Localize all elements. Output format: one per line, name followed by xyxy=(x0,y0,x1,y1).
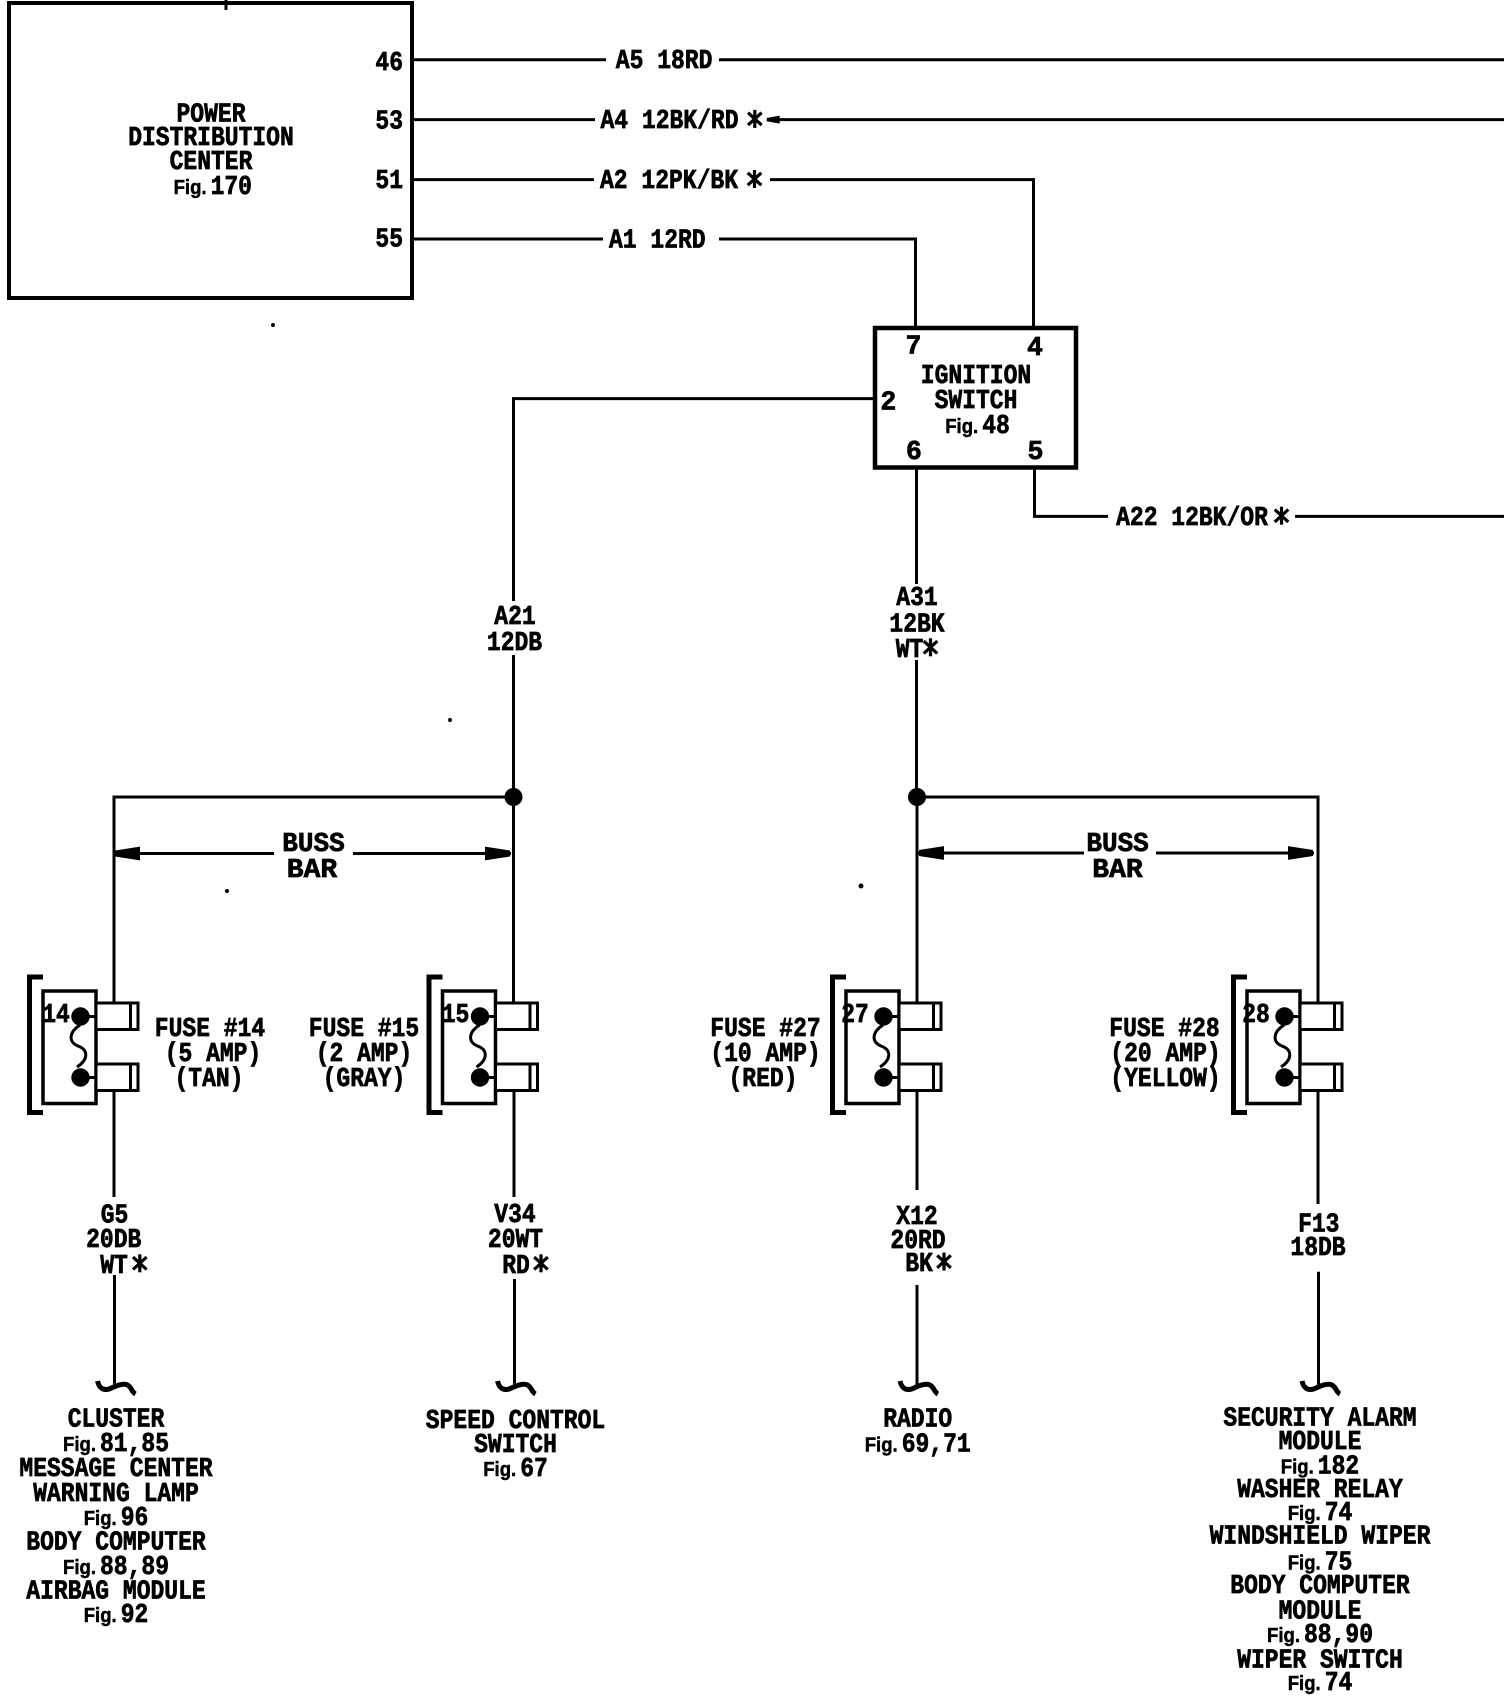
svg-text:RD: RD xyxy=(502,1251,530,1281)
break symbol cluster feed xyxy=(98,1381,136,1394)
svg-text:27: 27 xyxy=(841,1000,869,1030)
svg-text:46: 46 xyxy=(375,48,403,78)
wire A22 12BK/OR xyxy=(1033,467,1504,533)
svg-text:WINDSHIELD WIPER: WINDSHIELD WIPER xyxy=(1210,1522,1431,1552)
node cluster destination xyxy=(19,1404,212,1630)
wire segment PDC top tick xyxy=(225,0,228,10)
svg-text:67: 67 xyxy=(520,1454,548,1484)
svg-text:28: 28 xyxy=(1242,1000,1270,1030)
speck artifacts xyxy=(225,323,864,893)
svg-text:18DB: 18DB xyxy=(1290,1233,1345,1263)
svg-text:A22 12BK/OR: A22 12BK/OR xyxy=(1116,503,1268,533)
svg-text:BAR: BAR xyxy=(1092,855,1142,885)
fuse 15 xyxy=(429,977,538,1113)
svg-text:Fig.: Fig. xyxy=(483,1458,516,1481)
svg-text:A1 12RD: A1 12RD xyxy=(609,226,706,256)
pin 51 xyxy=(375,166,403,196)
svg-text:170: 170 xyxy=(211,172,252,202)
svg-text:A4 12BK/RD: A4 12BK/RD xyxy=(601,106,739,136)
svg-text:48: 48 xyxy=(982,411,1010,441)
svg-text:Fig.: Fig. xyxy=(84,1507,117,1530)
svg-text:BK: BK xyxy=(905,1249,933,1279)
wire A4 12BK/RD xyxy=(412,106,1504,136)
svg-text:14: 14 xyxy=(42,1000,70,1030)
wire A2 12PK/BK xyxy=(412,166,1034,330)
wire G5 20DB/WT xyxy=(86,1091,147,1387)
node junction A31/buss xyxy=(908,788,926,1003)
wire F13 18DB xyxy=(1290,1091,1345,1387)
svg-text:(RED): (RED) xyxy=(729,1064,798,1094)
svg-text:Fig.: Fig. xyxy=(63,1433,96,1456)
break symbol radio feed xyxy=(900,1381,938,1394)
svg-text:A2 12PK/BK: A2 12PK/BK xyxy=(600,166,738,196)
svg-text:2: 2 xyxy=(880,388,896,418)
fuse 27 xyxy=(833,977,942,1113)
fuse 28 label xyxy=(1109,1014,1220,1094)
left buss bar arrows xyxy=(114,829,511,885)
svg-text:Fig.: Fig. xyxy=(1288,1672,1321,1695)
fuse 27 label xyxy=(710,1014,820,1094)
break symbol speed control feed xyxy=(498,1381,536,1394)
right buss bar wire xyxy=(917,796,1318,1004)
node speed control switch destination xyxy=(426,1406,605,1484)
svg-text:BAR: BAR xyxy=(287,855,337,885)
svg-text:(GRAY): (GRAY) xyxy=(323,1064,406,1094)
svg-text:A31: A31 xyxy=(896,583,937,613)
wire V34 20WT/RD xyxy=(488,1091,548,1387)
pin 4 xyxy=(1027,333,1043,363)
svg-text:55: 55 xyxy=(375,225,403,255)
svg-text:WARNING LAMP: WARNING LAMP xyxy=(33,1479,199,1509)
svg-text:74: 74 xyxy=(1325,1668,1353,1698)
svg-text:Fig.: Fig. xyxy=(84,1604,117,1627)
svg-text:5: 5 xyxy=(1028,437,1044,467)
svg-text:6: 6 xyxy=(906,437,922,467)
wire X12 20RD/BK xyxy=(890,1091,950,1387)
fuse 14 xyxy=(30,977,139,1113)
power distribution center box xyxy=(9,3,412,298)
svg-text:51: 51 xyxy=(375,166,403,196)
node radio destination xyxy=(865,1404,971,1459)
pin 7 xyxy=(906,332,922,362)
svg-text:Fig.: Fig. xyxy=(1267,1624,1300,1647)
svg-text:(YELLOW): (YELLOW) xyxy=(1110,1064,1220,1094)
svg-text:Fig.: Fig. xyxy=(945,415,978,438)
svg-text:53: 53 xyxy=(375,106,403,136)
fuse 15 label xyxy=(309,1014,419,1094)
svg-text:A5 18RD: A5 18RD xyxy=(616,46,713,76)
pin 6 xyxy=(906,437,922,467)
svg-text:AIRBAG MODULE: AIRBAG MODULE xyxy=(26,1577,205,1607)
ignition switch box xyxy=(875,328,1076,468)
fuse 14 label xyxy=(155,1014,265,1094)
svg-text:(TAN): (TAN) xyxy=(175,1064,244,1094)
svg-text:7: 7 xyxy=(906,332,922,362)
svg-text:Fig.: Fig. xyxy=(174,176,207,199)
node security alarm destination xyxy=(1210,1404,1431,1699)
svg-text:Fig.: Fig. xyxy=(865,1433,898,1456)
pin 53 xyxy=(375,106,403,136)
svg-text:4: 4 xyxy=(1027,333,1043,363)
right buss bar arrows xyxy=(918,829,1314,885)
wire A21 12DB xyxy=(487,397,875,797)
svg-text:92: 92 xyxy=(121,1600,149,1630)
pin 5 xyxy=(1028,437,1044,467)
svg-text:WASHER RELAY: WASHER RELAY xyxy=(1237,1475,1403,1505)
svg-text:12DB: 12DB xyxy=(487,628,542,658)
wire A31 12BK/WT xyxy=(889,467,944,797)
node junction A21/buss xyxy=(505,788,523,1003)
pin 2 xyxy=(880,388,896,418)
svg-text:15: 15 xyxy=(442,1000,470,1030)
left buss bar wire xyxy=(113,796,514,1004)
pin 55 xyxy=(375,225,403,255)
svg-text:69,71: 69,71 xyxy=(902,1429,971,1459)
wire A5 18RD xyxy=(412,46,1504,76)
break symbol security alarm feed xyxy=(1302,1381,1340,1394)
wire A1 12RD xyxy=(412,226,916,330)
svg-text:WT: WT xyxy=(896,635,924,665)
pin 46 xyxy=(375,48,403,78)
fuse 28 xyxy=(1234,977,1343,1113)
